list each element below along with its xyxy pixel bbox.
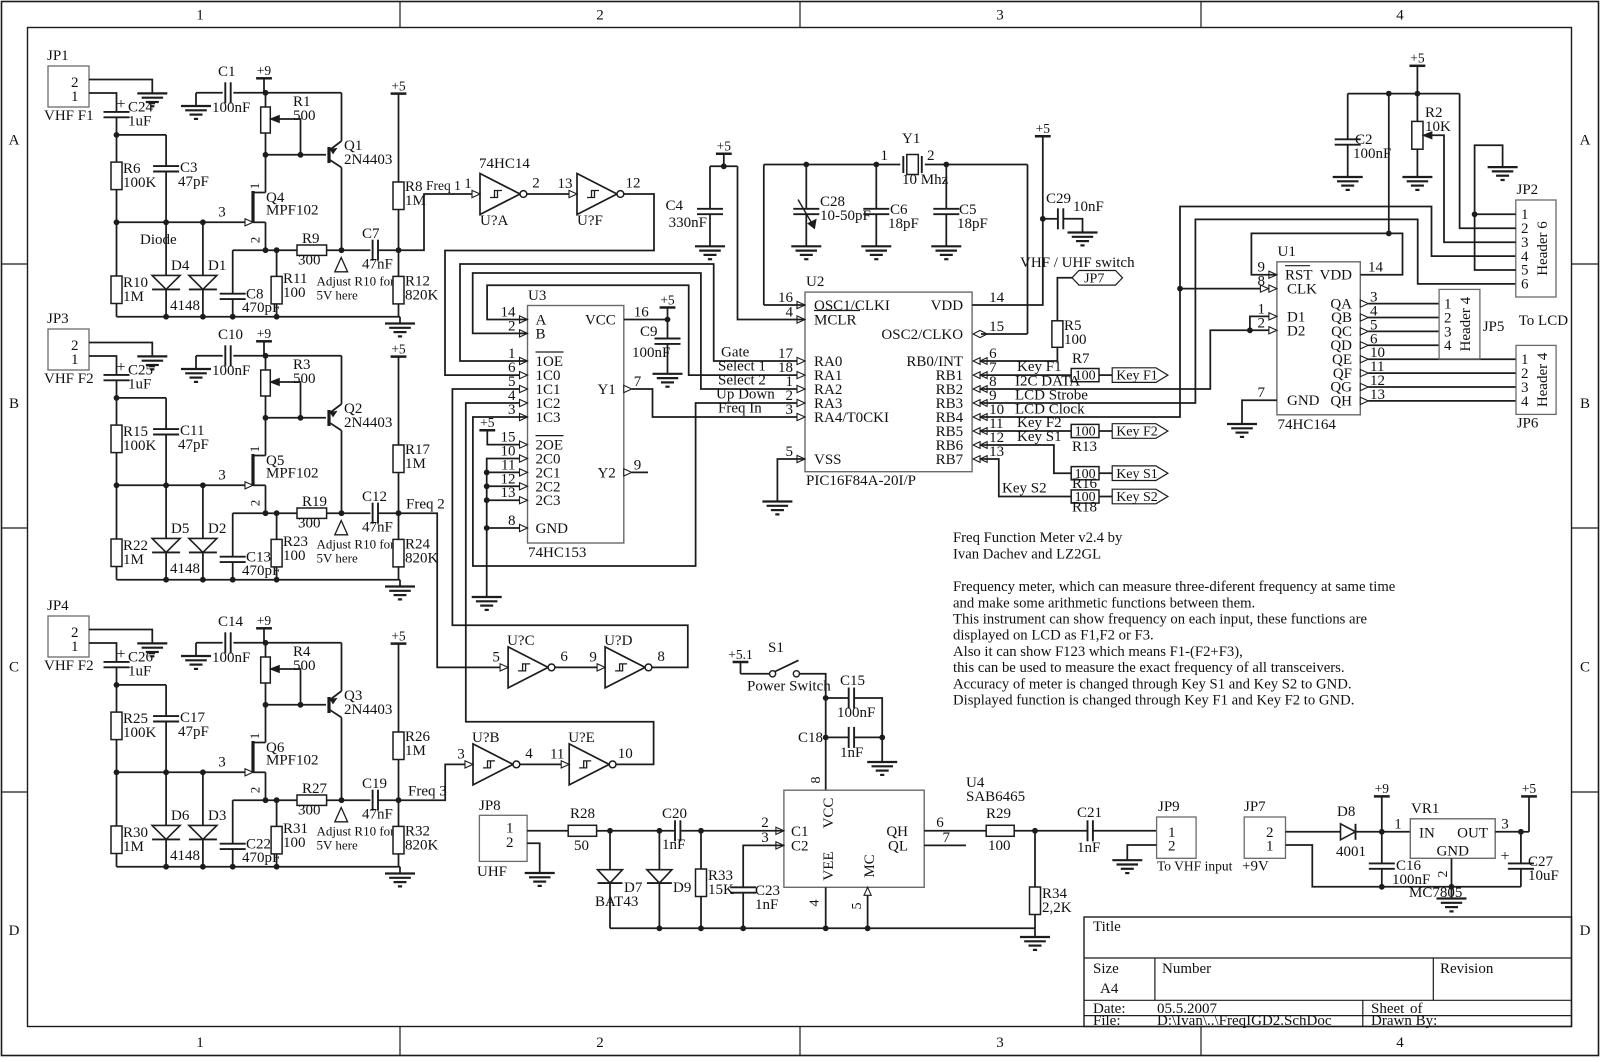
wires QE-QH to JP6 [1368,359,1516,401]
svg-text:2N4403: 2N4403 [344,702,392,718]
resistor R27 [297,781,371,819]
wire R2 wiper to JP2 pin3 [1432,135,1516,242]
svg-text:1uF: 1uF [128,664,151,680]
svg-text:2N4403: 2N4403 [344,415,392,431]
diode D7 BAT43 [595,831,643,929]
svg-text:C2: C2 [791,839,809,855]
svg-text:C: C [1580,660,1590,676]
svg-text:Header 4: Header 4 [1458,296,1474,351]
svg-text:6: 6 [1521,277,1529,293]
svg-text:VHF / UHF switch: VHF / UHF switch [1020,255,1135,271]
ground [137,642,167,644]
svg-text:1nF: 1nF [1077,840,1100,856]
capacitor C28 variable [793,165,871,247]
U2 pin 3 RA4/T0CKI [786,402,890,426]
power +5 [391,78,407,182]
regulator VR1 MC7805 [1394,801,1509,901]
capacitor C9 [632,324,681,374]
svg-text:+: + [116,359,125,376]
resistor R18 [1071,490,1112,516]
wire Up Down net RA3 to 1C3 [473,387,805,567]
wire gate node [117,453,246,539]
wire source node [233,249,297,251]
svg-text:D: D [1580,923,1591,939]
svg-text:Adjust R10 for: Adjust R10 for [317,274,396,289]
svg-text:1M: 1M [405,456,426,472]
junction [263,90,269,96]
svg-text:displayed on LCD as F1,F2 or F: displayed on LCD as F1,F2 or F3. [953,628,1154,644]
svg-text:Revision: Revision [1440,961,1494,977]
svg-text:U2: U2 [806,274,824,290]
svg-text:5: 5 [492,649,500,665]
svg-text:Header 4: Header 4 [1535,352,1551,407]
svg-text:1: 1 [196,8,204,24]
diode D1 [189,222,226,316]
U1 pin 9 RST [1258,260,1313,284]
svg-text:2C3: 2C3 [536,493,561,509]
resistor R17 [393,442,431,513]
svg-text:1: 1 [71,639,79,655]
wire ground rail power supply [1286,845,1521,887]
wire JP3 pin1 to C25 [89,356,117,375]
svg-text:2: 2 [1258,315,1266,331]
svg-text:18pF: 18pF [888,216,919,232]
resistor R10 [111,275,148,317]
svg-text:5V here: 5V here [317,288,359,303]
svg-text:9: 9 [634,457,642,473]
ground [525,872,555,874]
wire U?B out to U?E in [520,763,562,765]
switch S1 [747,640,831,695]
junction [263,353,269,359]
ground [472,596,502,598]
svg-text:+: + [116,96,125,113]
svg-text:D: D [9,923,20,939]
svg-text:Freq In: Freq In [718,401,762,417]
svg-text:16: 16 [634,305,650,321]
capacitor C21 [1077,805,1157,856]
junction [657,925,871,931]
power +9 [256,77,272,80]
potentiometer R3 [261,356,316,418]
wire base node [266,133,327,155]
capacitor C27 electrolytic [1500,848,1558,887]
svg-text:GND: GND [1287,393,1320,409]
svg-text:To VHF input: To VHF input [1157,859,1233,874]
ground [1402,176,1432,178]
wire RB0 to R5 to JP7 flag [981,278,1073,361]
svg-text:2: 2 [506,835,514,851]
svg-text:UHF: UHF [477,864,507,880]
diode D3 [189,772,226,866]
svg-text:10nF: 10nF [1073,199,1104,215]
connector JP3 input header [44,311,94,387]
svg-text:4: 4 [1396,8,1404,24]
U1 pin 14 VDD [1320,260,1384,284]
svg-text:Drawn By:: Drawn By: [1371,1013,1437,1029]
svg-text:Freq 1: Freq 1 [426,178,461,193]
svg-text:4: 4 [1444,338,1452,354]
wire Freq 3 net [399,764,467,800]
svg-text:1: 1 [247,733,262,740]
flag Key S1 [1112,466,1168,481]
wire JP9 pin2 to ground [1127,845,1156,860]
resistor R8 [393,179,426,250]
svg-text:Header 6: Header 6 [1535,221,1551,276]
svg-text:100nF: 100nF [632,345,670,361]
U3 pin 14 A [501,305,547,329]
ground [1437,897,1467,899]
capacitor C7 [362,226,399,273]
svg-text:+: + [116,646,125,663]
wire U4 MC to rail [864,887,871,928]
svg-text:100: 100 [283,548,306,564]
svg-text:100: 100 [1064,332,1087,348]
svg-text:Key F1: Key F1 [1116,369,1158,384]
U3 pin 7 Y1 [597,374,641,398]
svg-text:5V here: 5V here [317,838,359,853]
svg-text:VDD: VDD [1320,268,1353,284]
svg-text:6: 6 [936,815,944,831]
svg-text:820K: 820K [405,288,439,304]
junction [1472,211,1478,217]
potentiometer R4 [261,643,316,705]
capacitor C19 [362,776,399,823]
svg-text:+5: +5 [1036,121,1051,136]
junction [1386,91,1420,97]
U1 pin 5 QC [1331,317,1377,340]
svg-text:12: 12 [626,176,641,192]
label adjust [317,274,396,303]
resistor R24 [393,513,439,580]
svg-text:C1: C1 [218,64,236,80]
IC U2 PIC16F84A [805,274,972,489]
capacitor C3 [153,160,209,222]
ground [931,245,961,247]
resistor R23 [271,513,308,580]
wire RB6 to R16 [981,445,1071,473]
svg-text:+5: +5 [1410,51,1425,66]
svg-text:2: 2 [927,148,935,164]
svg-text:Power Switch: Power Switch [747,679,831,695]
svg-text:Key F2: Key F2 [1116,425,1158,440]
svg-text:3: 3 [218,205,226,221]
U2 pin 4 MCLR [786,305,861,329]
U2 pin 6 RB0/INT [906,346,997,370]
svg-text:47nF: 47nF [362,807,393,823]
ground [867,737,897,775]
power +5 [716,139,732,167]
transistor Q3 PNP [329,643,392,800]
resistor R19 [297,494,371,532]
ground [1488,166,1518,168]
svg-text:Number: Number [1162,961,1211,977]
svg-text:9: 9 [589,649,597,665]
svg-text:3: 3 [218,755,226,771]
svg-text:C14: C14 [218,614,244,630]
svg-text:15: 15 [989,319,1004,335]
svg-text:4: 4 [786,305,794,321]
wire JP3 pin2 to ground [89,343,152,357]
svg-text:100K: 100K [123,175,157,191]
wire base node [266,396,327,418]
U1 pin 10 QE [1332,345,1385,368]
U2 pin 13 RB7 [936,444,1005,468]
wire bottom rail [117,866,401,868]
svg-text:330nF: 330nF [669,215,707,231]
resistor R15 [111,424,157,454]
svg-text:+9: +9 [257,63,272,78]
svg-text:47nF: 47nF [362,257,393,273]
inverter U?F [577,174,617,215]
svg-text:3: 3 [218,468,226,484]
svg-text:Ivan Dachev and LZ2GL: Ivan Dachev and LZ2GL [953,547,1101,563]
svg-text:this can be used to measure th: this can be used to measure the exact fr… [953,660,1345,676]
svg-text:4148: 4148 [170,561,200,577]
resistor R32 [393,800,439,867]
connector JP7 +9V [1242,799,1286,875]
junction [396,797,402,803]
junction [1247,327,1253,333]
resistor R16 [1071,467,1112,492]
svg-text:100K: 100K [123,438,157,454]
capacitor C13 [220,513,281,580]
svg-text:SAB6465: SAB6465 [966,789,1025,805]
svg-text:2: 2 [248,237,263,244]
U2 pin 17 RA0 [778,346,842,370]
U1 pin 3 QA [1330,290,1377,313]
svg-text:5: 5 [786,444,794,460]
U2 pin 11 RB5 [936,416,1004,440]
svg-text:+5: +5 [1522,781,1537,796]
svg-text:PIC16F84A-20I/P: PIC16F84A-20I/P [806,473,916,489]
svg-text:2: 2 [596,1035,604,1051]
svg-text:Accuracy of meter is changed t: Accuracy of meter is changed through Key… [953,677,1352,693]
resistor R22 [111,538,148,580]
power +9 [1374,781,1390,863]
wire LCD Strobe net RB3 to JP2 pin6 [981,219,1516,403]
svg-text:A: A [9,133,20,149]
U3 pin 16 VCC [585,305,668,329]
svg-text:5V here: 5V here [317,551,359,566]
svg-text:4001: 4001 [1336,844,1366,860]
svg-text:1: 1 [1266,839,1274,855]
U3 pin 9 Y2 [597,457,648,481]
power +5 for U3 VCC [660,292,676,338]
capacitor C10 [196,327,342,379]
svg-text:13: 13 [989,444,1004,460]
svg-text:2,2K: 2,2K [1042,900,1072,916]
svg-text:2: 2 [248,500,263,507]
U1 pin 11 QF [1333,359,1385,382]
svg-text:300: 300 [298,516,321,532]
power +9 [256,340,272,343]
svg-text:2: 2 [532,176,540,192]
resistor R34 [1030,831,1072,929]
U2 pin 14 VDD [931,290,1005,314]
connector JP8 UHF [477,798,527,880]
junction [114,395,120,401]
svg-text:R27: R27 [302,781,328,797]
wire I2C DATA net RB2 to U1 D1 D2 [981,316,1269,389]
svg-text:and make some arithmetic funct: and make some arithmetic functions betwe… [953,595,1255,611]
svg-text:2: 2 [248,787,263,794]
connector JP5 Header 4 [1439,289,1504,359]
junction [263,247,280,253]
capacitor C5 [933,165,988,247]
potentiometer R2 [1412,94,1451,177]
U1 pin 4 QB [1331,304,1378,327]
svg-text:1: 1 [196,1035,204,1051]
svg-text:100nF: 100nF [1353,146,1391,162]
junction gate node [114,219,206,225]
junction [1518,829,1524,835]
svg-text:1uF: 1uF [128,377,151,393]
diode D5 [152,485,189,579]
U1 pin 7 GND [1242,385,1320,424]
svg-text:100: 100 [283,285,306,301]
wire U?A out to U?F in [527,193,570,195]
U3 pin 5 1C1 [508,374,561,398]
U1 pin 13 QH [1330,387,1385,410]
U2 pin 2 RA3 [786,388,843,412]
svg-text:Adjust R10 for: Adjust R10 for [317,824,396,839]
resistor R11 [271,250,307,317]
svg-text:VCC: VCC [821,798,837,829]
resistor R26 [393,729,431,800]
svg-text:3: 3 [1501,816,1509,832]
svg-text:14: 14 [1368,260,1384,276]
wire LCD Clock net RB4 to U1 CLK and JP2 pin4 [981,207,1516,418]
svg-text:820K: 820K [405,838,439,854]
svg-text:MPF102: MPF102 [266,466,319,482]
U1 pin 6 QD [1330,331,1378,354]
junction [339,247,345,253]
diode D8 4001 [1336,804,1410,860]
svg-text:Diode: Diode [140,232,177,248]
wire RB7 to R18 [981,459,1071,497]
svg-text:3: 3 [996,8,1004,24]
U3 pin 1 1OE [508,346,564,370]
svg-text:U1: U1 [1278,244,1296,260]
diode D4 [152,222,190,316]
capacitor C18 [798,727,882,761]
svg-text:GND: GND [1436,844,1469,860]
svg-text:This instrument can show frequ: This instrument can show frequency on ea… [953,611,1367,627]
svg-text:74HC164: 74HC164 [1278,417,1337,433]
svg-text:R19: R19 [302,494,327,510]
svg-text:JP6: JP6 [1517,416,1539,432]
svg-text:2: 2 [761,815,769,831]
svg-text:Key S2: Key S2 [1116,490,1158,505]
capacitor C14 [196,614,342,666]
ground [137,355,167,357]
svg-text:Also it can show F123 which me: Also it can show F123 which means F1-(F2… [953,644,1243,660]
svg-text:VDD: VDD [931,298,964,314]
transistor Q4 JFET [218,155,318,250]
capacitor C15 [826,673,883,737]
svg-text:C29: C29 [1046,191,1071,207]
wire RST VDD loop to +5 [1251,233,1402,274]
svg-text:100: 100 [1075,425,1096,440]
capacitor C16 [1369,858,1431,888]
svg-text:+5: +5 [717,139,732,154]
svg-text:6: 6 [560,649,568,665]
U3 pin 11 2C1 [501,457,560,481]
connector JP6 Header 4 [1516,345,1556,431]
svg-text:VHF F2: VHF F2 [44,658,94,674]
wire source node [233,799,297,801]
svg-text:C18: C18 [798,730,823,746]
svg-text:VHF F2: VHF F2 [44,371,94,387]
U1 pin 12 QG [1330,373,1385,396]
svg-text:7: 7 [634,374,642,390]
svg-text:10K: 10K [1425,119,1451,135]
svg-text:JP8: JP8 [479,798,501,814]
svg-text:B: B [536,326,546,342]
junction [1177,286,1183,292]
capacitor C20 [662,806,784,853]
svg-text:3: 3 [786,402,794,418]
ground [1112,859,1142,861]
svg-text:D9: D9 [673,880,691,896]
svg-text:7: 7 [943,830,951,846]
capacitor C4 [665,166,723,246]
resistor R29 [986,806,1087,854]
wire gate node [117,190,246,276]
svg-text:VCC: VCC [585,313,616,329]
svg-text:U?E: U?E [568,730,595,746]
svg-text:7: 7 [1258,385,1266,401]
ground [385,867,415,887]
svg-text:Title: Title [1093,919,1121,935]
junction [263,797,280,803]
svg-text:100nF: 100nF [212,363,250,379]
svg-text:3: 3 [996,1035,1004,1051]
wire crystal rail [764,165,1028,335]
svg-text:MC: MC [862,854,878,877]
flag Key S2 [1112,489,1168,504]
diode D2 [189,485,226,579]
U3 pin 4 1C2 [508,388,561,412]
wire 2C inputs to ground [487,459,520,598]
inverter U?E [569,744,609,785]
junction [484,470,490,531]
svg-text:11: 11 [550,746,564,762]
wire U4 QH to R29 [924,830,986,832]
svg-text:1nF: 1nF [840,745,863,761]
svg-text:10 Mhz: 10 Mhz [902,172,949,188]
U3 pin 3 1C3 [508,402,561,426]
wire +5 to JP2 pin2 [1460,94,1516,229]
wire R28 to C20 [610,830,674,832]
svg-text:C9: C9 [640,324,658,340]
junction [1032,828,1038,834]
svg-text:A4: A4 [1100,981,1119,997]
junction gate node [114,769,206,775]
svg-text:Freq Function Meter v2.4 by: Freq Function Meter v2.4 by [953,530,1123,546]
svg-text:U?B: U?B [472,730,500,746]
U2 pin 5 VSS [786,444,842,468]
svg-text:OSC2/CLKO: OSC2/CLKO [881,327,963,343]
svg-text:C19: C19 [362,776,387,792]
svg-text:D4: D4 [171,258,190,274]
power +5 [391,628,407,732]
svg-text:47nF: 47nF [362,520,393,536]
junction bottom rail [163,577,279,583]
svg-text:JP7: JP7 [1084,271,1104,286]
junction [263,510,280,516]
